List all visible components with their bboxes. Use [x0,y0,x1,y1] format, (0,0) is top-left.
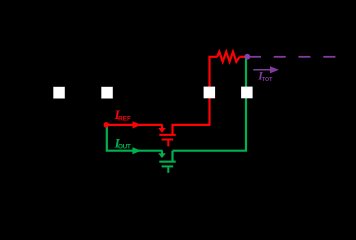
wire: red bus from input node toward transistor [107,124,163,126]
resistor R1 (zigzag) [217,52,239,62]
wire: red vertical from resistor corner through pad down to bus [210,57,218,125]
wire: dashed continuation carrying I_TOT [249,56,335,58]
transistor Q2 (green, current-direction arrow into channel) [158,151,176,173]
wire: red lead from resistor to purple node [240,56,247,58]
current arrow I_TOT [253,66,279,73]
component body pad 1 (white square) [53,87,65,99]
wire: green drop from input node to output bus [107,125,163,151]
node: red input junction dot (I_REF / I_OUT split) [104,122,109,127]
label I_TOT [257,70,273,83]
current arrow I_OUT (arrowhead on green bus) [132,147,141,154]
wire: red bus right segment to transistor drain [173,125,211,134]
label I_REF [114,107,131,122]
label I_OUT [114,135,131,150]
wire: green horizontal bus to right column [173,57,247,151]
component body pad 4 (white square) [241,87,253,99]
svg-text:OUT: OUT [118,144,131,151]
svg-text:REF: REF [118,115,131,122]
wire: green source riser and bus to output pad column [171,151,173,161]
transistor Q1 (red, current-direction arrow into channel) [158,126,176,147]
component body pad 3 (white square) [204,87,216,99]
svg-text:TOT: TOT [262,77,273,83]
node: purple summing junction dot [244,54,250,60]
current arrow I_REF (arrowhead on red bus) [133,121,142,128]
component body pad 2 (white square) [101,87,113,99]
